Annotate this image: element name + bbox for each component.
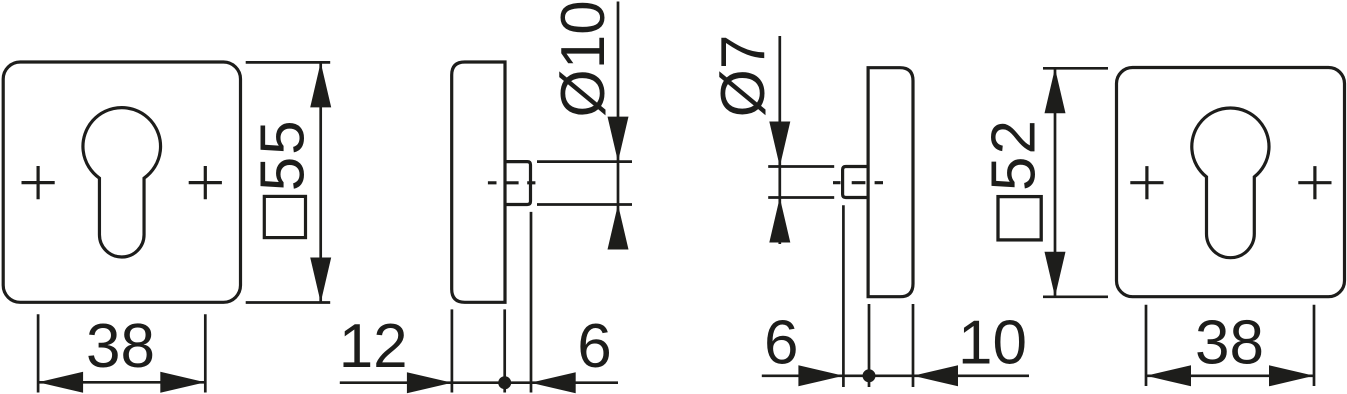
svg-text:12: 12 bbox=[339, 312, 408, 381]
dimension dia-7: arrow up bbox=[769, 198, 790, 243]
dimension dia-10: arrow up bbox=[608, 205, 629, 250]
dimension dia-10: arrow down bbox=[608, 117, 629, 162]
dimension 38 plate 2: dimension line bbox=[1146, 374, 1314, 377]
plate 2 front view (52mm square rosette) bbox=[1117, 68, 1345, 297]
dimension 38 plate 1: extension lines bbox=[38, 314, 205, 392]
svg-text:6: 6 bbox=[764, 308, 798, 377]
dimension 38 plate 1: arrow left bbox=[38, 372, 83, 393]
dimension square-55: square symbol bbox=[264, 196, 305, 237]
dimension dia-7: extension lines bbox=[768, 167, 834, 198]
dimension 38 plate 2: arrow right bbox=[1269, 365, 1314, 386]
svg-text:6: 6 bbox=[577, 312, 611, 381]
svg-text:Ø7: Ø7 bbox=[709, 35, 778, 118]
svg-text:55: 55 bbox=[249, 118, 318, 191]
dimension 38 plate 1: dimension line bbox=[38, 381, 205, 384]
svg-text:38: 38 bbox=[86, 312, 155, 381]
dimension 38 plate 2: extension lines bbox=[1146, 305, 1314, 386]
dimension 38 plate 1: arrow right bbox=[160, 372, 205, 393]
dimension 6: arrow (points right) bbox=[798, 365, 843, 386]
cylinder collar nub side view 2 bbox=[843, 167, 869, 198]
plate 2 side view outline (10mm thick) bbox=[868, 68, 913, 297]
dimension square-52: dimension line bbox=[1054, 68, 1057, 296]
svg-text:Ø10: Ø10 bbox=[549, 0, 618, 117]
svg-text:52: 52 bbox=[980, 118, 1049, 191]
dimension 12: extension lines bbox=[452, 212, 531, 393]
dimension square-52: square symbol bbox=[998, 197, 1041, 240]
dimension dia-7: arrow down bbox=[769, 122, 790, 167]
dimension 6/10: extension lines bbox=[843, 205, 913, 387]
dimension square-55: dimension line bbox=[319, 62, 322, 302]
cylinder collar nub side view 1 bbox=[505, 162, 531, 205]
keyhole cutout plate 2 bbox=[1192, 108, 1269, 258]
screw cross right plate 2 bbox=[1298, 166, 1331, 199]
dimension dia-10: extension lines bbox=[537, 162, 632, 205]
dimension square-55: extension lines bbox=[246, 62, 331, 302]
dimension square-52: arrow up bbox=[1045, 68, 1066, 113]
dimension 12/6: dimension line bbox=[340, 381, 618, 384]
keyhole cutout plate 1 bbox=[83, 108, 161, 257]
centerline side view 1 bbox=[488, 181, 536, 184]
plate 1 side view outline (12mm thick) bbox=[452, 62, 505, 302]
dimension 38 plate 2: arrow left bbox=[1146, 365, 1191, 386]
svg-text:10: 10 bbox=[958, 308, 1027, 377]
dimension square-55: arrow down bbox=[310, 258, 331, 303]
junction dot at plate front bbox=[863, 369, 876, 382]
dimension 10: arrow (points left) bbox=[913, 365, 958, 386]
junction dot at plate back bbox=[498, 376, 511, 389]
dimension 12: arrow (points right) bbox=[407, 372, 452, 393]
dimension square-52: arrow down bbox=[1045, 252, 1066, 297]
dimension 6: arrow (points left) bbox=[531, 372, 576, 393]
centerline side view 2 bbox=[833, 181, 883, 184]
dimension square-55: arrow up bbox=[310, 62, 331, 107]
dimension dia-10: dimension line bbox=[617, 2, 620, 250]
dimension square-52: extension lines bbox=[1043, 68, 1108, 296]
screw cross right plate 1 bbox=[189, 166, 222, 199]
dimension 6/10: dimension line bbox=[762, 374, 1029, 377]
screw cross left plate 1 bbox=[22, 166, 55, 199]
dimension dia-7: dimension line bbox=[778, 36, 781, 244]
plate 1 front view (55mm square rosette) bbox=[3, 62, 240, 302]
svg-text:38: 38 bbox=[1195, 308, 1264, 377]
screw cross left plate 2 bbox=[1130, 166, 1163, 199]
